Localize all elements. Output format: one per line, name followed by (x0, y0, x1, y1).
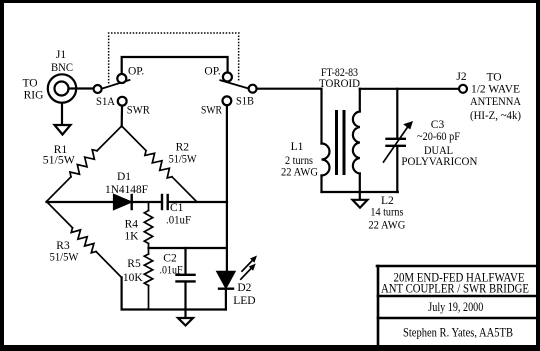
svg-text:.01uF: .01uF (166, 215, 191, 227)
switch S1B (201, 66, 257, 117)
svg-text:BNC: BNC (51, 62, 73, 74)
wire S1B common to T1 primary (257, 89, 322, 144)
svg-text:July 19, 2000: July 19, 2000 (428, 300, 483, 314)
wire bridge left vertex to D1 anode (47, 201, 115, 203)
svg-text:ANT COUPLER / SWR BRIDGE: ANT COUPLER / SWR BRIDGE (381, 282, 529, 296)
svg-text:Stephen R. Yates, AA5TB: Stephen R. Yates, AA5TB (403, 326, 513, 340)
svg-text:SWR: SWR (127, 105, 150, 117)
svg-text:14 turns: 14 turns (370, 207, 403, 219)
svg-text:51/5W: 51/5W (50, 252, 79, 264)
resistor R5 10K (123, 248, 153, 310)
svg-text:R2: R2 (176, 142, 190, 154)
svg-text:J1: J1 (56, 49, 66, 61)
svg-text:L1: L1 (291, 141, 304, 153)
switch S1A (94, 66, 151, 117)
diode D1 1N4148 (105, 171, 148, 209)
svg-text:S1B: S1B (236, 96, 254, 108)
svg-text:1N4148F: 1N4148F (105, 184, 148, 196)
transformer T1 secondary L2 (14 turns 22 AWG) (353, 89, 406, 232)
svg-text:R3: R3 (56, 240, 70, 252)
wire J1 to S1A common (69, 87, 95, 89)
wire S1A OP to S1B OP (122, 57, 228, 75)
svg-text:(HI-Z, ~4k): (HI-Z, ~4k) (470, 110, 521, 122)
svg-text:POLYVARICON: POLYVARICON (401, 156, 478, 168)
svg-text:FT-82-83: FT-82-83 (321, 67, 358, 79)
resistor R1 51/5W (43, 126, 122, 202)
connector J2 (to 1/2 wave antenna) (456, 71, 521, 122)
wire L2 top to J2 (C3 tap) (360, 88, 459, 90)
variable capacitor C3 ~20-60 pF dual polyvaricon (384, 89, 479, 192)
svg-text:.01uF: .01uF (160, 265, 183, 277)
wire S1B SWR down to node B (226, 105, 228, 202)
ground (below C2 / bottom rail) (178, 310, 193, 326)
capacitor C1 .01uF (162, 195, 191, 227)
wire D1 cathode to C1 (R4 tap at 148.5) (132, 201, 161, 203)
ground (J1) (55, 103, 71, 135)
svg-text:D2: D2 (237, 282, 251, 294)
svg-text:OP.: OP. (128, 66, 144, 78)
svg-text:OP.: OP. (204, 66, 220, 78)
svg-text:51/5W: 51/5W (169, 153, 197, 165)
ground (transformer secondary) (353, 192, 368, 208)
svg-text:22 AWG: 22 AWG (281, 166, 318, 178)
svg-text:R5: R5 (127, 258, 141, 270)
svg-text:RIG: RIG (24, 90, 44, 102)
svg-text:S1A: S1A (96, 96, 116, 108)
capacitor C2 .01uF (160, 248, 195, 310)
svg-text:1K: 1K (124, 231, 139, 243)
svg-text:C2: C2 (163, 252, 177, 264)
svg-text:1/2 WAVE: 1/2 WAVE (471, 83, 520, 95)
svg-text:10K: 10K (123, 272, 144, 284)
wire S1A SWR to bridge fork node (121, 106, 124, 127)
transformer T1 core (FT-82-83 toroid) (319, 67, 360, 174)
resistor R4 1K (124, 202, 152, 248)
transformer T1 primary L1 (2 turns 22 AWG) (281, 141, 330, 192)
svg-text:SWR: SWR (201, 105, 222, 117)
svg-text:TO: TO (486, 71, 501, 83)
connector J1 (BNC, TO RIG) (22, 49, 76, 103)
svg-text:C1: C1 (170, 202, 184, 214)
resistor R3 51/5W (47, 202, 122, 278)
svg-text:ANTENNA: ANTENNA (470, 96, 522, 108)
svg-text:~20-60 pF: ~20-60 pF (417, 131, 460, 143)
svg-text:51/5W: 51/5W (43, 155, 75, 167)
svg-text:TO: TO (22, 78, 37, 90)
svg-text:TOROID: TOROID (319, 78, 360, 90)
gang link S1A-S1B (dotted) (108, 32, 240, 83)
LED D2 (218, 202, 258, 310)
svg-text:R4: R4 (125, 219, 139, 231)
title block (377, 266, 537, 346)
svg-text:2 turns: 2 turns (285, 155, 313, 167)
svg-text:22 AWG: 22 AWG (368, 219, 405, 231)
svg-text:C3: C3 (431, 119, 445, 131)
svg-text:LED: LED (233, 295, 255, 307)
wire R4-R5 junction to D2 branch (149, 247, 227, 249)
svg-text:D1: D1 (117, 171, 131, 183)
svg-text:J2: J2 (456, 71, 466, 83)
svg-text:L2: L2 (381, 195, 394, 207)
wire bottom rail (122, 278, 226, 310)
wire C1 to node B (R2 joins) (168, 201, 227, 203)
resistor R2 51/5W (122, 126, 197, 202)
wire transformer bottom rail (322, 191, 398, 193)
